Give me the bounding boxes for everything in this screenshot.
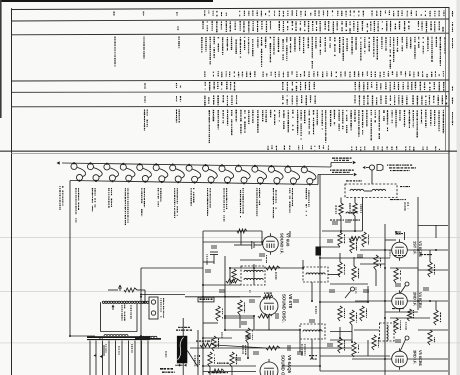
svg-text:3RD I.F.: 3RD I.F. — [413, 350, 418, 364]
svg-text:V4 6CB4: V4 6CB4 — [418, 292, 423, 309]
svg-text:SOUND DISC.: SOUND DISC. — [282, 294, 287, 323]
svg-text:SOUND I.F.: SOUND I.F. — [280, 233, 285, 254]
svg-text:V3 6CB6: V3 6CB6 — [418, 241, 423, 258]
svg-text:2ND I.F.: 2ND I.F. — [413, 292, 418, 306]
svg-text:V8 6T8: V8 6T8 — [288, 294, 293, 309]
svg-text:V9 6AQ5: V9 6AQ5 — [287, 355, 292, 374]
svg-text:V5 6CB6: V5 6CB6 — [418, 350, 423, 367]
svg-text:1ST I.F.: 1ST I.F. — [413, 241, 418, 254]
svg-text:SOUND OUT: SOUND OUT — [281, 355, 286, 375]
